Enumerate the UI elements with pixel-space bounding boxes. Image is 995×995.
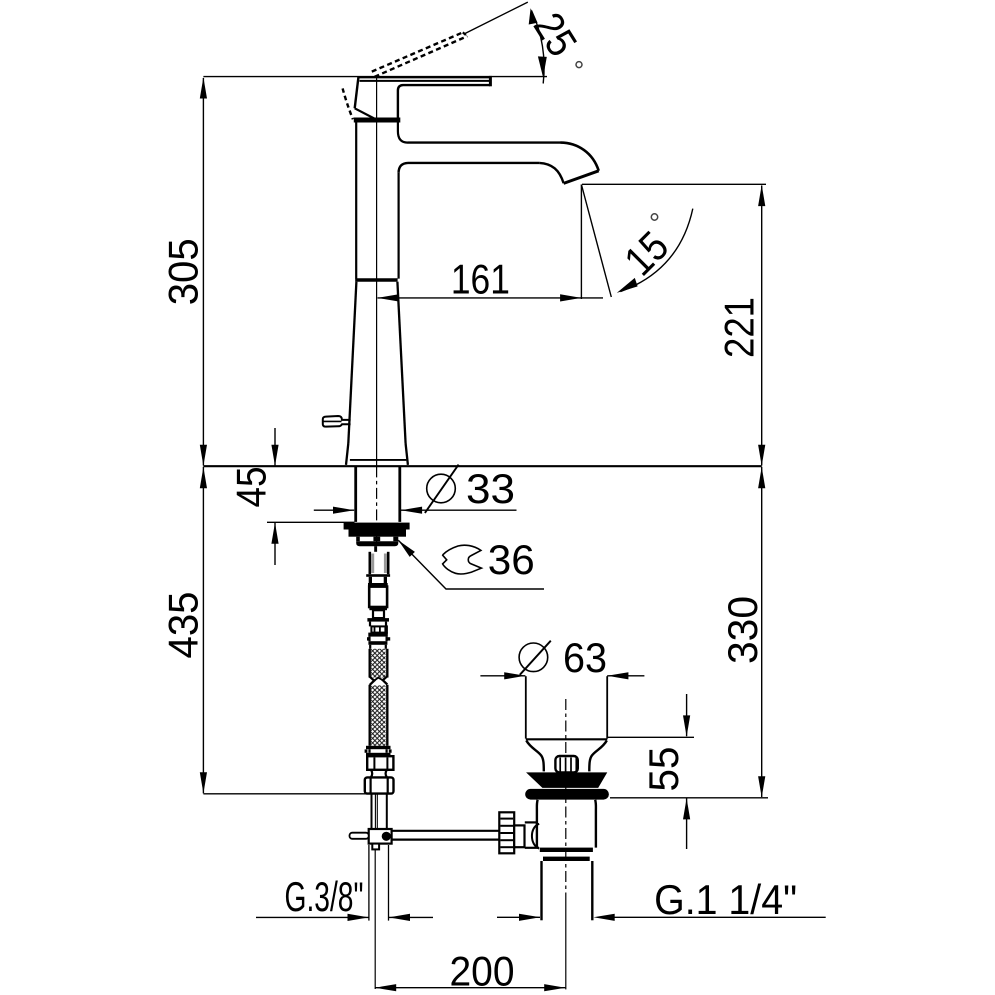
- collar row with side nubs: [368, 637, 370, 642]
- centerline below counter: [376, 466, 378, 546]
- G 3/8 dim line right tail: [389, 916, 433, 918]
- dashed open lever upper line: [372, 32, 463, 71]
- hose break symbol: [368, 678, 388, 684]
- lever blade tip cap: [489, 76, 492, 86]
- dimension 45 bottom arrow (points up): [271, 523, 278, 544]
- thin row walls: [369, 645, 371, 649]
- hose hex body: [367, 756, 393, 770]
- diameter 63 dim line left tail: [480, 675, 525, 677]
- angle 15 slanted ray: [581, 185, 611, 298]
- shank left wall: [354, 467, 357, 522]
- wrench leader arrow: [398, 540, 415, 557]
- G 1 1/4 right arrow: [594, 914, 615, 921]
- svg-text:36: 36: [488, 536, 535, 583]
- hose end ferrule bands: [366, 746, 391, 749]
- svg-text:305: 305: [160, 238, 207, 305]
- spout outer bend: [561, 143, 599, 171]
- angle 15 degree circle: [651, 214, 657, 220]
- diameter 33 left arrow: [333, 507, 354, 514]
- handle front edge: [355, 77, 359, 109]
- clamp lever arm: [350, 833, 369, 839]
- column joint line: [355, 278, 397, 281]
- plug neck left profile: [526, 741, 544, 772]
- outlet tube left wall: [540, 861, 542, 920]
- svg-text:G.3/8": G.3/8": [285, 873, 364, 920]
- dimension 45 top stub: [274, 428, 276, 466]
- plug cap right wall: [606, 676, 608, 738]
- housing deck top and left corner: [398, 85, 490, 118]
- dimension 330 bottom arrow: [758, 776, 765, 797]
- plug knurled stem: [555, 756, 577, 772]
- angle 25 degree circle: [576, 62, 582, 68]
- plug cone (black): [527, 773, 606, 788]
- braided hose upper section: [371, 649, 386, 678]
- angle 25 arc top arrow: [529, 8, 538, 24]
- black band: [369, 607, 387, 610]
- diameter 63 circle symbol: [519, 643, 548, 672]
- hose nipple nub: [374, 546, 377, 552]
- mounting nut window row bars: [356, 537, 360, 542]
- black band: [367, 618, 389, 622]
- dimension 55 top arrow: [683, 715, 690, 736]
- diameter 33 slash: [425, 465, 459, 513]
- rod extension line down: [374, 849, 376, 989]
- spout end face: [564, 171, 599, 184]
- spout bottom edge: [408, 162, 539, 164]
- top extension line (lever level): [203, 76, 547, 78]
- svg-text:45: 45: [228, 467, 275, 508]
- G 3/8 right arrow: [389, 914, 410, 921]
- braided hose lower section: [371, 685, 386, 745]
- dimension 45 top arrow (points down to counter): [271, 445, 278, 466]
- diameter 33 dim line left tail: [314, 509, 354, 511]
- black band: [368, 641, 387, 645]
- black band: [368, 583, 388, 587]
- dimension 305 bottom arrow: [200, 445, 207, 466]
- clamp lower nub: [372, 844, 379, 850]
- plug neck right profile: [589, 741, 607, 772]
- clamp pivot ball: [382, 832, 391, 841]
- G 3/8 left arrow: [348, 914, 369, 921]
- G 1 1/4 dim line left tail: [497, 916, 540, 918]
- wrench leader line: [398, 540, 544, 589]
- body right edge above spout: [398, 123, 408, 143]
- dimension 221 extension line (spout outlet level): [582, 183, 766, 185]
- dimension 221 bottom arrow: [758, 445, 765, 466]
- spout top edge: [408, 141, 561, 143]
- angle 15 arc arrow: [617, 278, 638, 293]
- svg-text:33: 33: [466, 465, 515, 512]
- diameter 33 right arrow: [401, 507, 422, 514]
- black band: [368, 633, 388, 637]
- rod coupling knurl: [499, 812, 514, 853]
- tailpiece gray strip left: [371, 554, 374, 574]
- dimension 55 top extension line: [608, 736, 694, 738]
- outlet tube right wall: [591, 861, 593, 920]
- base rim line: [350, 459, 407, 461]
- waste locknut ring (black): [543, 857, 590, 861]
- waste flange (black): [525, 789, 609, 800]
- svg-text:G.1 1/4": G.1 1/4": [654, 876, 797, 923]
- waste body left wall: [536, 800, 539, 848]
- tailpiece gray strip right: [384, 554, 387, 574]
- dimension 221 line: [761, 186, 763, 466]
- G3/8 connection nut: [365, 777, 394, 793]
- dimension 330 line: [761, 467, 763, 797]
- dimension 161 line: [378, 297, 604, 299]
- G 3/8 thread extension line left: [368, 845, 370, 921]
- dimension 435 bottom arrow: [200, 772, 207, 793]
- dimension 435 extension line: [203, 793, 365, 795]
- G 3/8 thread extension line right: [388, 845, 390, 921]
- dimension 55 top stub: [686, 694, 688, 736]
- mounting nut bottom band: [356, 541, 398, 546]
- waste shoulder ring (black): [540, 848, 593, 852]
- fitting box: [369, 587, 387, 607]
- pull rod knob mid line: [324, 420, 342, 422]
- pull rod knob: [323, 416, 351, 427]
- window row walls: [369, 577, 372, 583]
- dimension 330 extension line (flange bottom level): [610, 797, 768, 799]
- hose collar: [371, 770, 387, 778]
- dimension 55 bottom arrow: [683, 798, 690, 819]
- tailpiece tube right wall: [387, 552, 390, 574]
- handle front chamfer: [355, 108, 375, 118]
- svg-text:55: 55: [640, 747, 687, 792]
- diameter 63 right arrow: [607, 672, 628, 679]
- rod clamp block: [369, 829, 392, 844]
- angle 15 arc: [620, 209, 692, 292]
- dashed open lever tip cap: [463, 32, 468, 36]
- small box: [373, 610, 384, 618]
- dimension 305 top arrow: [200, 77, 207, 98]
- angle 25 ray from vertex to dashed lever tip: [464, 2, 528, 34]
- horizontal pop-up rod to drain: [392, 830, 500, 832]
- G 1 1/4 dim line right tail: [615, 916, 826, 918]
- diameter 63 dim line right tail: [607, 675, 644, 677]
- svg-text:161: 161: [451, 256, 510, 303]
- dashed open handle profile: [343, 88, 353, 119]
- cone right edge: [397, 282, 405, 444]
- angle 25 arc bottom arrow: [538, 56, 547, 77]
- white row walls: [369, 622, 371, 627]
- tailpiece ring: [366, 574, 390, 577]
- dimension 55 bottom stub: [686, 798, 688, 849]
- mounting flange second band: [349, 530, 407, 537]
- dimension 45 extension line: [267, 521, 355, 523]
- ferrule with facets: [371, 626, 387, 632]
- svg-text:330: 330: [719, 596, 766, 664]
- pop-up rod inside tube: [374, 794, 376, 829]
- G 1 1/4 left arrow: [519, 914, 540, 921]
- dimension 221 top arrow: [758, 185, 765, 206]
- diameter 63 left arrow: [504, 672, 525, 679]
- column right edge: [398, 173, 400, 279]
- dashed open lever lower line: [375, 36, 468, 77]
- svg-text:63: 63: [563, 634, 607, 681]
- base flare right: [406, 444, 408, 465]
- dimension 435 top arrow: [200, 467, 207, 488]
- tee socket arc: [532, 824, 539, 849]
- angle 25 arc: [532, 11, 545, 84]
- dimension 435 line: [202, 467, 204, 794]
- lever blade top edge: [358, 76, 490, 78]
- plug cap bottom edge: [526, 738, 608, 740]
- tee stub bottom: [525, 847, 539, 849]
- dimension 161 left arrow: [378, 294, 399, 301]
- dimension 161 right arrow: [560, 294, 581, 301]
- dimension 305 line: [202, 78, 204, 466]
- mounting flange black band: [344, 523, 410, 530]
- svg-text:435: 435: [160, 592, 207, 659]
- svg-text:221: 221: [716, 297, 763, 358]
- body right corner under spout: [399, 163, 408, 173]
- diameter 33 circle symbol: [427, 474, 456, 503]
- column left edge: [355, 123, 357, 279]
- dimension 200 left arrow: [375, 984, 396, 991]
- counter top line: [203, 465, 761, 467]
- plug cap left wall: [525, 676, 527, 738]
- rod coupling collar: [514, 825, 524, 847]
- rod guide tube walls: [371, 794, 373, 829]
- faucet centerline: [376, 77, 378, 466]
- tailpiece tube left wall: [369, 552, 372, 574]
- tee stub top: [525, 821, 537, 823]
- angle 15 vertical ray from aerator: [580, 185, 582, 300]
- clamp screw block: [362, 833, 367, 838]
- cone left edge: [348, 282, 356, 444]
- spout inner bend: [539, 163, 563, 183]
- drain centerline: [565, 699, 567, 895]
- lever blade bottom edge: [360, 80, 490, 82]
- G 3/8 dim line left tail: [256, 916, 369, 918]
- handle joint bar: [354, 118, 401, 123]
- dimension 45 bottom stub: [274, 523, 276, 565]
- dimension 330 top arrow: [758, 467, 765, 488]
- diameter 63 slash: [520, 641, 551, 675]
- shank right wall: [398, 467, 401, 522]
- dimension 200 right arrow: [544, 984, 565, 991]
- dimension 200 line: [375, 987, 565, 989]
- svg-text:200: 200: [450, 948, 515, 995]
- base flare left: [346, 444, 348, 465]
- wrench icon: [443, 545, 482, 574]
- waste body right wall: [594, 800, 597, 848]
- diameter 33 dim line right tail: [401, 509, 517, 511]
